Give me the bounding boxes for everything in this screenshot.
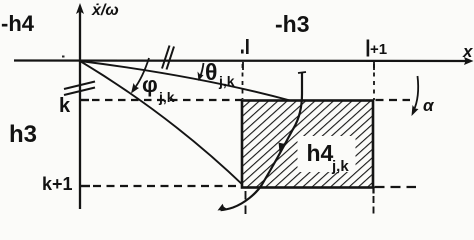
x axis break mark (162, 46, 174, 70)
hatched switching rectangle (242, 101, 373, 188)
phi line from origin (80, 61, 245, 187)
trajectory curve (221, 73, 303, 210)
alpha arrow (414, 76, 419, 111)
j+1 label (367, 40, 370, 57)
speckle on axis (62, 56, 65, 58)
j tick below axis (242, 62, 244, 70)
rect right edge overshoot (372, 187, 374, 194)
svg-text:j,k: j,k (331, 158, 349, 175)
x axis (14, 59, 468, 62)
theta line from origin (80, 61, 292, 101)
svg-text:x: x (462, 42, 474, 61)
theta angle arrow (200, 63, 204, 77)
j dashed vertical (242, 64, 244, 99)
j+1 dashed vertical below rect (373, 196, 375, 214)
phi angle arc (134, 58, 149, 89)
k dashed level right of rect (376, 99, 411, 101)
j+1 dashed vertical (373, 64, 375, 100)
svg-text:+1: +1 (370, 41, 387, 58)
trajectory end arrowhead (218, 204, 228, 211)
svg-text:h3: h3 (9, 121, 37, 148)
svg-text:φ: φ (142, 72, 158, 97)
k+1 tick (80, 185, 90, 187)
svg-text:h4: h4 (307, 140, 334, 166)
svg-text:α: α (423, 96, 435, 115)
y axis arrowhead (76, 3, 84, 14)
svg-text:θ: θ (205, 59, 217, 85)
svg-text:j,k: j,k (158, 89, 175, 105)
x axis arrowhead (464, 57, 474, 65)
svg-text:ẋ/ω: ẋ/ω (91, 2, 119, 19)
j label (246, 39, 249, 54)
k+1 dashed level line (93, 185, 240, 187)
j+1 tick below axis (373, 62, 375, 70)
k+1 dashed level right of rect (375, 186, 417, 188)
svg-text:k+1: k+1 (42, 174, 73, 194)
svg-text:-h3: -h3 (275, 11, 310, 37)
y axis break mark (64, 82, 95, 96)
svg-text:k: k (59, 95, 71, 117)
svg-text:j,k: j,k (218, 73, 235, 89)
j dashed vertical below rect (245, 191, 247, 216)
white label box inside rectangle (298, 136, 356, 172)
trajectory top tick (298, 72, 306, 73)
svg-text:-h4: -h4 (1, 11, 35, 36)
k dashed level line (92, 99, 242, 101)
y axis (79, 7, 81, 209)
k tick (79, 99, 89, 101)
trajectory mid arrowhead (279, 142, 289, 152)
